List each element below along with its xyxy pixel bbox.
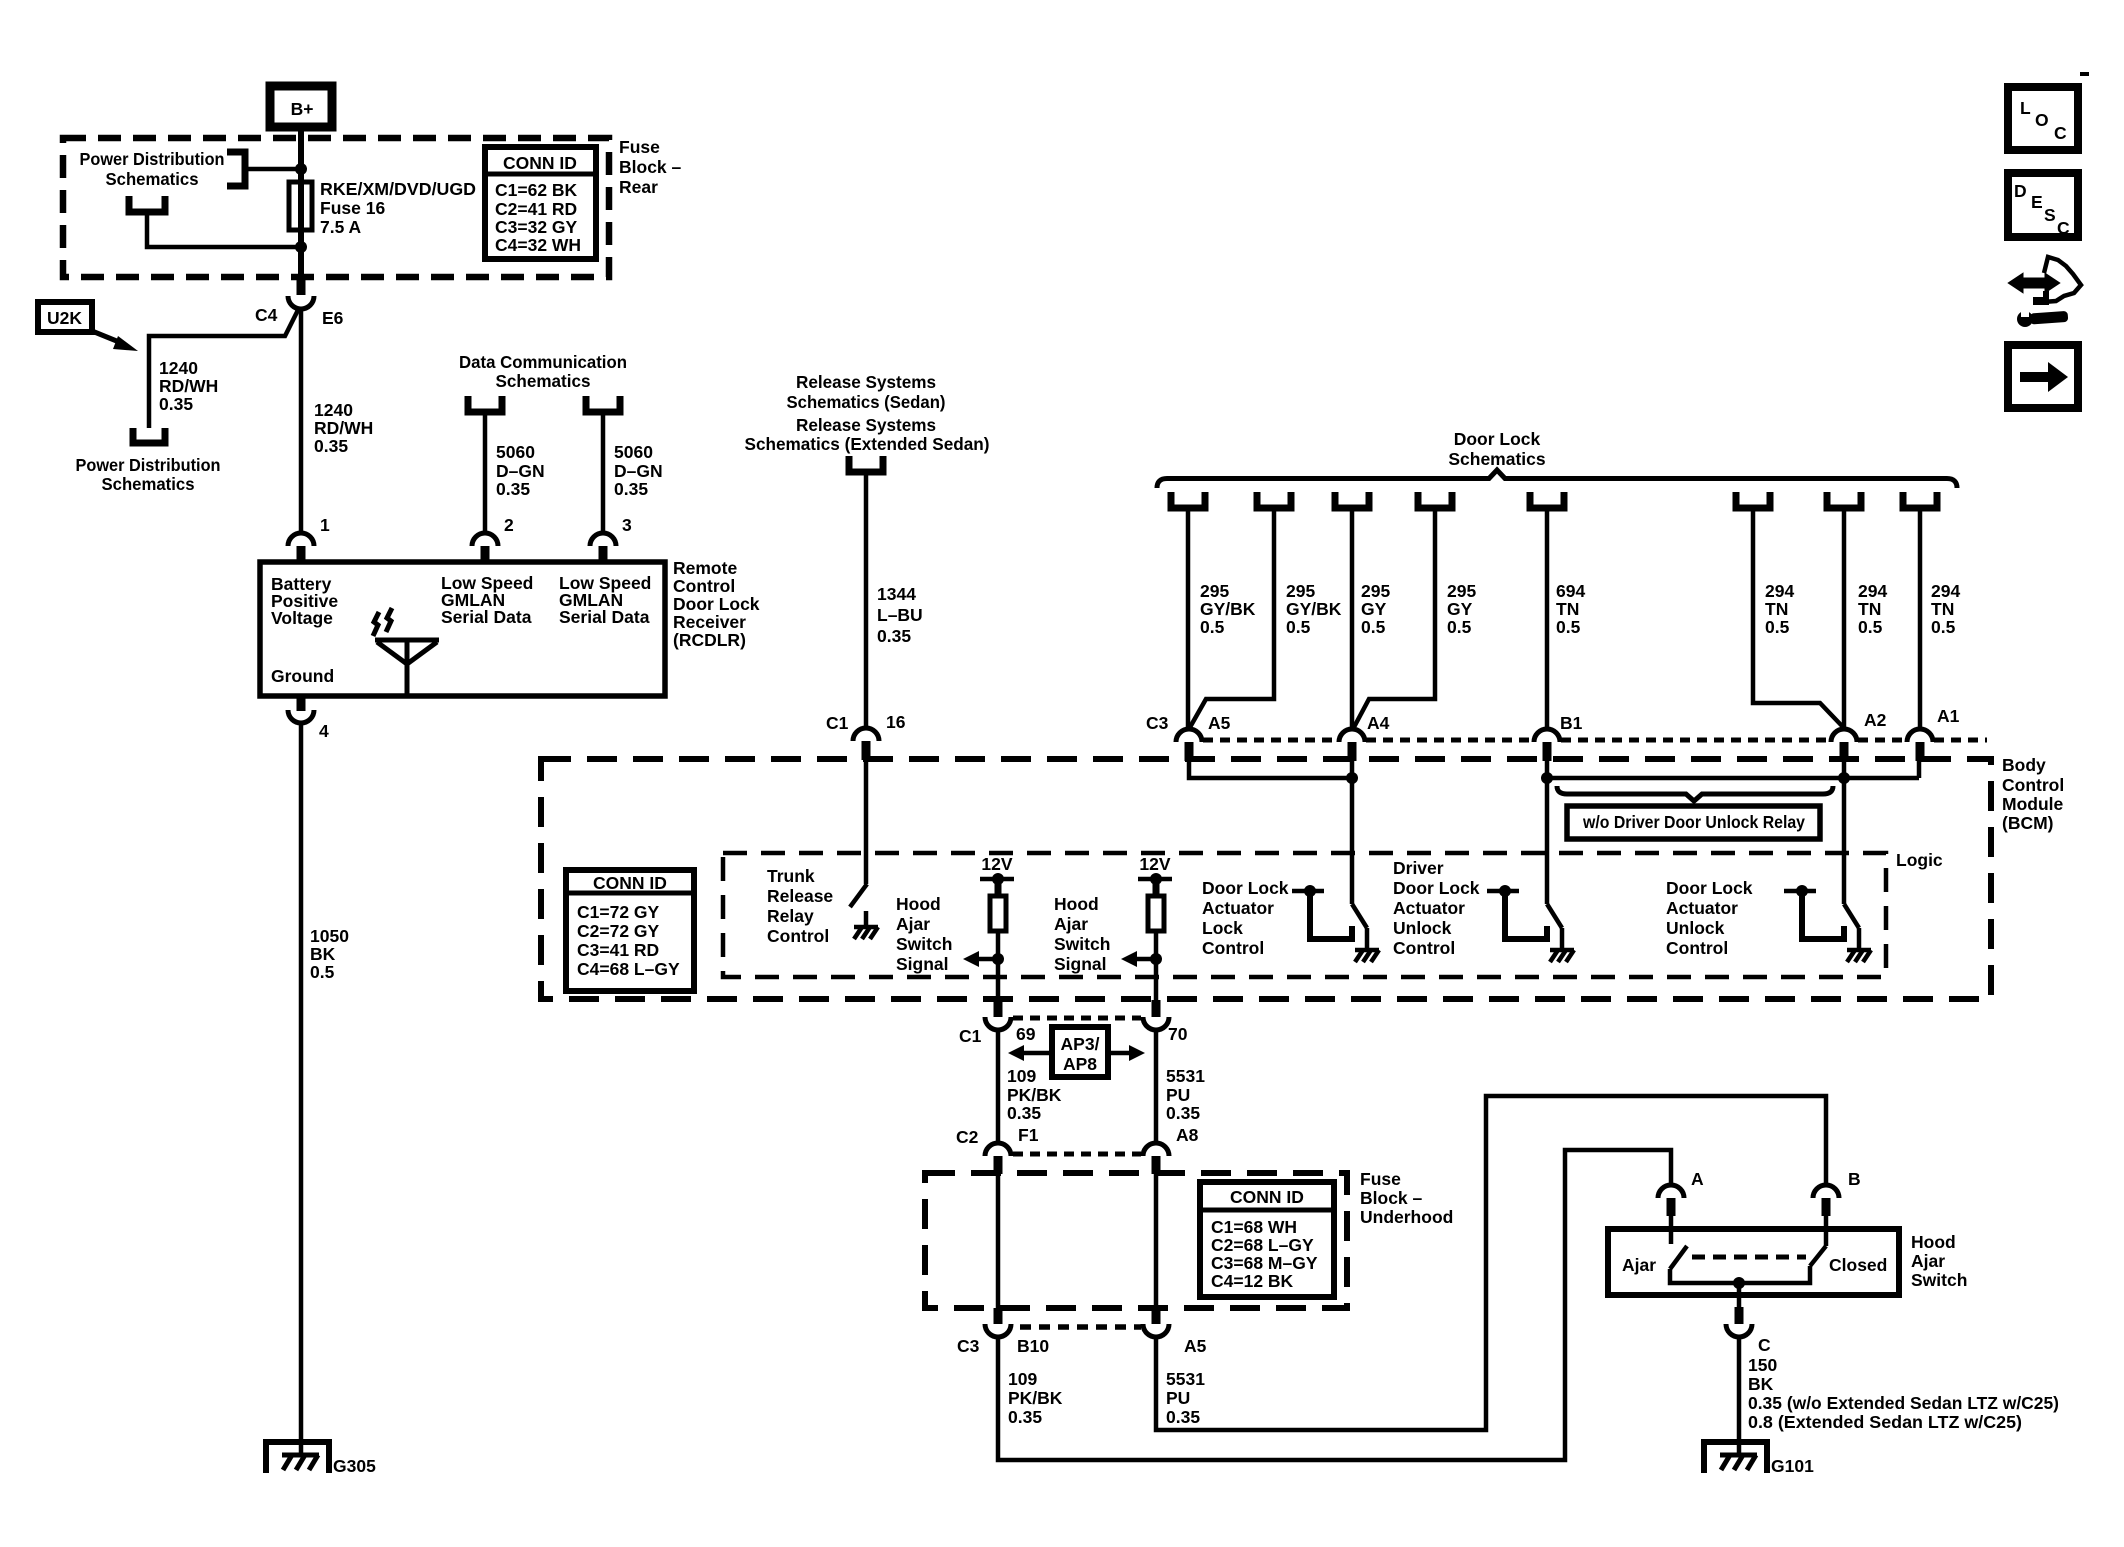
svg-text:109: 109: [1008, 1369, 1037, 1389]
svg-text:Driver: Driver: [1393, 858, 1444, 878]
svg-text:C4=12 BK: C4=12 BK: [1211, 1271, 1294, 1291]
svg-text:Ajar: Ajar: [1911, 1251, 1945, 1271]
svg-text:Unlock: Unlock: [1666, 918, 1725, 938]
svg-text:Switch: Switch: [1911, 1270, 1967, 1290]
svg-text:C1: C1: [959, 1026, 982, 1046]
svg-text:0.5: 0.5: [1858, 617, 1883, 637]
svg-text:RD/WH: RD/WH: [314, 418, 373, 438]
hood ajar switch common path: [1670, 1266, 1810, 1283]
label trunk release relay control: [767, 866, 833, 946]
label 295 GY/BK 0.5 (w2): [1286, 581, 1342, 637]
svg-text:0.5: 0.5: [1447, 617, 1472, 637]
svg-text:Data Communication: Data Communication: [459, 352, 627, 372]
connector A4 arc: [1339, 729, 1365, 742]
power distribution schematics bracket 2: [129, 196, 165, 212]
connector C3/B10 stub: [994, 1308, 1003, 1324]
trunk release relay switch blade: [850, 884, 867, 907]
svg-text:0.35: 0.35: [314, 436, 348, 456]
connector B arc: [1813, 1185, 1839, 1198]
svg-text:Module: Module: [2002, 794, 2064, 814]
connector C1/69 arc: [985, 1017, 1011, 1030]
wire to power distribution bracket: [245, 167, 301, 172]
svg-text:3: 3: [622, 515, 632, 535]
connector C2/F1 arc: [985, 1143, 1011, 1156]
svg-text:C1: C1: [826, 713, 849, 733]
label low speed gmlan serial data (pin3): [559, 573, 651, 627]
door lock bracket w2: [1257, 492, 1291, 508]
svg-text:Release: Release: [767, 886, 833, 906]
label door lock actuator lock control: [1202, 878, 1289, 958]
svg-text:D–GN: D–GN: [614, 461, 663, 481]
pin 1 connector stub: [297, 546, 306, 563]
svg-text:0.8 (Extended Sedan LTZ w/C25): 0.8 (Extended Sedan LTZ w/C25): [1748, 1412, 2022, 1432]
connector C stub: [1735, 1307, 1744, 1324]
pin 4 connector stub: [297, 696, 306, 711]
svg-text:7.5 A: 7.5 A: [320, 217, 362, 237]
wire 109 through fuse block: [996, 1174, 1001, 1308]
svg-text:Voltage: Voltage: [271, 608, 333, 628]
w/o driver door unlock relay label box: [1567, 806, 1820, 839]
signal arrow (right): [1121, 951, 1156, 967]
svg-text:1: 1: [320, 515, 330, 535]
wire 5531 PU (70 to A8): [1154, 1030, 1159, 1142]
svg-text:Fuse 16: Fuse 16: [320, 198, 385, 218]
label 1344 L-BU 0.35: [877, 584, 923, 646]
svg-text:CONN ID: CONN ID: [593, 873, 667, 893]
svg-text:0.35: 0.35: [159, 394, 193, 414]
svg-text:0.5: 0.5: [1286, 617, 1311, 637]
label release systems schematics: [745, 372, 990, 454]
svg-text:(BCM): (BCM): [2002, 813, 2054, 833]
svg-text:Control: Control: [1666, 938, 1728, 958]
svg-text:69: 69: [1016, 1024, 1036, 1044]
data communication bracket pin2: [468, 396, 502, 412]
wire main 1240 RD/WH down to RCDLR pin 1: [299, 308, 304, 533]
brace w/o driver door unlock relay: [1557, 786, 1833, 801]
brace door lock schematics: [1157, 470, 1957, 488]
svg-text:B1: B1: [1560, 713, 1583, 733]
power distribution schematics reference bracket (right-open): [227, 152, 245, 186]
svg-text:C2=41 RD: C2=41 RD: [495, 199, 577, 219]
svg-text:1240: 1240: [314, 400, 353, 420]
svg-text:0.35: 0.35: [1166, 1103, 1200, 1123]
svg-text:A5: A5: [1208, 713, 1231, 733]
svg-text:Ajar: Ajar: [896, 914, 930, 934]
door lock bracket w3: [1335, 492, 1369, 508]
svg-text:294: 294: [1931, 581, 1960, 601]
dotted row C2 F1-A8: [1013, 1152, 1141, 1157]
connector C1/69 stub: [994, 1000, 1003, 1017]
svg-text:12V: 12V: [1139, 854, 1170, 874]
svg-text:1240: 1240: [159, 358, 198, 378]
connector C2/F1 stub: [994, 1156, 1003, 1174]
svg-text:Block –: Block –: [1360, 1188, 1423, 1208]
svg-text:w/o Driver Door Unlock Relay: w/o Driver Door Unlock Relay: [1582, 812, 1805, 832]
svg-text:RKE/XM/DVD/UGD: RKE/XM/DVD/UGD: [320, 179, 476, 199]
door lock bracket w1: [1171, 492, 1205, 508]
wire w5 694 TN to B1: [1545, 508, 1550, 730]
svg-text:Schematics: Schematics: [102, 474, 195, 494]
label 150 BK 0.35/0.8: [1748, 1355, 2059, 1432]
connector A arc: [1658, 1185, 1684, 1198]
svg-text:(RCDLR): (RCDLR): [673, 630, 746, 650]
label driver door lock actuator unlock control: [1393, 858, 1480, 958]
svg-text:CONN ID: CONN ID: [1230, 1187, 1304, 1207]
ground rake (unlock): [1847, 950, 1871, 962]
svg-text:0.35: 0.35: [1007, 1103, 1041, 1123]
svg-text:5531: 5531: [1166, 1066, 1205, 1086]
node junction dot 1: [295, 163, 307, 175]
svg-text:BK: BK: [1748, 1374, 1774, 1394]
svg-text:5531: 5531: [1166, 1369, 1205, 1389]
connector C4/E6 arc: [288, 296, 314, 309]
hood ajar switch pin A lead: [1669, 1216, 1674, 1244]
svg-text:0.5: 0.5: [1931, 617, 1956, 637]
svg-text:C2: C2: [956, 1127, 979, 1147]
svg-text:109: 109: [1007, 1066, 1036, 1086]
resistor (right hood ajar pull-up): [1148, 896, 1164, 931]
svg-text:GY: GY: [1361, 599, 1387, 619]
svg-text:C: C: [1758, 1335, 1771, 1355]
svg-text:Fuse: Fuse: [619, 137, 660, 157]
label 294 TN 0.5 (w7): [1858, 581, 1887, 637]
door lock bracket w6: [1736, 492, 1770, 508]
svg-text:Release Systems: Release Systems: [796, 372, 936, 392]
label 5060 D-GN 0.35 (pin3): [614, 442, 663, 499]
svg-text:Switch: Switch: [1054, 934, 1110, 954]
label low speed gmlan serial data (pin2): [441, 573, 533, 627]
svg-text:Release Systems: Release Systems: [796, 415, 936, 435]
power distribution schematics bracket 3 (lower left): [133, 428, 165, 443]
svg-text:Schematics: Schematics: [496, 371, 591, 391]
wire w3 295 GY to A4: [1350, 508, 1355, 730]
connector 70 stub: [1152, 1000, 1161, 1017]
svg-text:A: A: [1691, 1169, 1704, 1189]
node junction dot 2: [295, 241, 307, 253]
svg-text:D–GN: D–GN: [496, 461, 545, 481]
svg-text:Door Lock: Door Lock: [1202, 878, 1289, 898]
svg-text:Control: Control: [1202, 938, 1264, 958]
antenna symbol: [373, 608, 439, 696]
svg-text:C1=68 WH: C1=68 WH: [1211, 1217, 1297, 1237]
svg-text:295: 295: [1447, 581, 1476, 601]
wire 1344 L-BU trunk release: [864, 472, 869, 730]
wire 1050 BK to G305: [299, 722, 304, 1442]
dotted connector row C3: [1203, 738, 1987, 743]
svg-text:0.5: 0.5: [1200, 617, 1225, 637]
svg-text:C3=68 M–GY: C3=68 M–GY: [1211, 1253, 1318, 1273]
svg-text:Control: Control: [767, 926, 829, 946]
wire w8 294 TN to A1: [1918, 508, 1923, 730]
svg-text:Switch: Switch: [896, 934, 952, 954]
ground G101 symbol: [1704, 1442, 1767, 1473]
wire w7 294 TN to A2: [1842, 508, 1847, 730]
svg-text:Ajar: Ajar: [1054, 914, 1088, 934]
label 5531 PU 0.35 (upper): [1166, 1066, 1205, 1123]
svg-text:Control: Control: [673, 576, 735, 596]
wire w4 295 GY bend to A4: [1353, 508, 1435, 729]
connector 70 arc: [1143, 1017, 1169, 1030]
svg-text:Ajar: Ajar: [1622, 1255, 1656, 1275]
pin 3 connector arc: [590, 533, 616, 546]
wire 5531 PU routing to hood ajar switch pin B: [1156, 1096, 1826, 1430]
fuse RKE/XM/DVD/UGD Fuse 16 7.5A: [289, 179, 476, 237]
signal arrow (left): [963, 951, 998, 967]
label 5531 PU 0.35 (lower): [1166, 1369, 1205, 1427]
svg-text:CONN ID: CONN ID: [503, 153, 577, 173]
icon LOC box: [2008, 87, 2078, 150]
svg-text:Serial Data: Serial Data: [559, 607, 650, 627]
wire branch to U2K circuit (1240 RD/WH): [149, 310, 298, 428]
svg-text:295: 295: [1361, 581, 1390, 601]
wire 5060 D-GN to pin 2: [483, 412, 488, 533]
connector B stub: [1822, 1198, 1831, 1216]
svg-text:C3: C3: [957, 1336, 980, 1356]
svg-text:L: L: [2020, 98, 2031, 118]
hood ajar switch blade B (closed): [1810, 1246, 1826, 1266]
label 295 GY 0.5 (w3): [1361, 581, 1390, 637]
svg-text:U2K: U2K: [47, 308, 82, 328]
svg-text:0.35: 0.35: [496, 479, 530, 499]
12V supply node (left): [980, 854, 1014, 896]
svg-text:C3: C3: [1146, 713, 1169, 733]
label 295 GY 0.5 (w4): [1447, 581, 1476, 637]
svg-text:295: 295: [1200, 581, 1229, 601]
svg-text:0.5: 0.5: [1556, 617, 1581, 637]
svg-text:AP8: AP8: [1063, 1054, 1097, 1074]
svg-text:TN: TN: [1556, 599, 1579, 619]
svg-text:G101: G101: [1771, 1456, 1814, 1476]
logic dashed box: [723, 853, 1886, 977]
trunk release switch lower contact stub: [864, 911, 869, 927]
svg-text:0.35: 0.35: [1008, 1407, 1042, 1427]
label door lock schematics: [1448, 429, 1546, 469]
svg-text:Signal: Signal: [896, 954, 949, 974]
svg-text:F1: F1: [1018, 1125, 1039, 1145]
label door lock actuator unlock control: [1666, 878, 1753, 958]
node junction dot at A4: [1346, 772, 1358, 784]
label 295 GY/BK 0.5 (w1): [1200, 581, 1256, 637]
CONN ID table fuse block underhood: [1200, 1182, 1334, 1297]
svg-text:O: O: [2035, 110, 2049, 130]
svg-text:Underhood: Underhood: [1360, 1207, 1453, 1227]
svg-text:Relay: Relay: [767, 906, 814, 926]
svg-text:294: 294: [1765, 581, 1794, 601]
svg-text:Schematics (Sedan): Schematics (Sedan): [787, 392, 946, 412]
pin 2 connector arc: [472, 533, 498, 546]
svg-text:A1: A1: [1937, 706, 1960, 726]
svg-text:Actuator: Actuator: [1666, 898, 1738, 918]
wire common down: [1737, 1283, 1742, 1307]
label Data Communication Schematics: [459, 352, 627, 391]
connector C arc: [1726, 1324, 1752, 1337]
svg-text:0.5: 0.5: [310, 962, 335, 982]
wire bus B1 to A1: [1547, 776, 1919, 781]
wire w1 295 GY/BK to A5: [1186, 508, 1191, 730]
svg-text:C: C: [2057, 218, 2070, 238]
svg-text:Trunk: Trunk: [767, 866, 815, 886]
label 694 TN 0.5 (w5): [1556, 581, 1585, 637]
pin 3 connector stub: [599, 546, 608, 563]
door lock bracket w4: [1418, 492, 1452, 508]
svg-text:GY: GY: [1447, 599, 1473, 619]
wire A1 stub into bus: [1917, 760, 1922, 778]
label Fuse Block - Rear: [619, 137, 682, 197]
wire junction2 to lower bracket: [147, 212, 301, 247]
label 1240 RD/WH 0.35 (main): [314, 400, 373, 456]
svg-text:C4=32 WH: C4=32 WH: [495, 235, 581, 255]
svg-text:150: 150: [1748, 1355, 1777, 1375]
svg-text:694: 694: [1556, 581, 1585, 601]
label 294 TN 0.5 (w6): [1765, 581, 1794, 637]
svg-text:Actuator: Actuator: [1393, 898, 1465, 918]
wire 109 PK/BK (69 to F1): [996, 1030, 1001, 1142]
svg-text:Rear: Rear: [619, 177, 658, 197]
label hood ajar switch: [1911, 1232, 1967, 1290]
svg-text:Block –: Block –: [619, 157, 682, 177]
svg-text:G305: G305: [333, 1456, 376, 1476]
label hood ajar switch signal (right): [1054, 894, 1110, 974]
svg-text:Power Distribution: Power Distribution: [76, 455, 221, 475]
label 5060 D-GN 0.35 (pin2): [496, 442, 545, 499]
svg-text:0.5: 0.5: [1361, 617, 1386, 637]
svg-text:Ground: Ground: [271, 666, 334, 686]
svg-text:C: C: [2054, 123, 2067, 143]
svg-text:5060: 5060: [496, 442, 535, 462]
svg-text:BK: BK: [310, 944, 336, 964]
svg-text:16: 16: [886, 712, 906, 732]
svg-text:Closed: Closed: [1829, 1255, 1887, 1275]
dashed mechanical link: [1692, 1255, 1806, 1260]
label 1240 RD/WH 0.35 (branch): [159, 358, 218, 414]
svg-text:E6: E6: [322, 308, 344, 328]
connector A1 arc: [1907, 729, 1933, 742]
dotted row C3 B10-A5: [1020, 1324, 1141, 1330]
wire w6 294 TN bend to A2: [1753, 508, 1843, 727]
svg-text:L–BU: L–BU: [877, 605, 923, 625]
svg-text:TN: TN: [1765, 599, 1788, 619]
svg-text:A4: A4: [1367, 713, 1390, 733]
svg-text:Remote: Remote: [673, 558, 737, 578]
svg-text:1344: 1344: [877, 584, 916, 604]
connector A5 stub: [1185, 742, 1194, 761]
svg-text:0.35: 0.35: [1166, 1407, 1200, 1427]
label 294 TN 0.5 (w8): [1931, 581, 1960, 637]
svg-text:C2=68 L–GY: C2=68 L–GY: [1211, 1235, 1314, 1255]
svg-text:Schematics (Extended Sedan): Schematics (Extended Sedan): [745, 434, 990, 454]
wire B1 down to driver unlock switch: [1545, 760, 1550, 904]
wire right hood ajar signal down: [1154, 931, 1159, 1017]
pin 4 connector arc: [288, 710, 314, 723]
node junction dot at B1: [1541, 772, 1553, 784]
svg-text:AP3/: AP3/: [1061, 1034, 1100, 1054]
svg-text:B+: B+: [291, 99, 314, 119]
connector A5 arc: [1176, 729, 1202, 742]
connector A5 out arc: [1143, 1324, 1169, 1337]
label fuse block underhood: [1360, 1169, 1453, 1227]
svg-text:Unlock: Unlock: [1393, 918, 1452, 938]
lock control switch assembly: [1292, 885, 1367, 950]
connector A2 stub: [1840, 742, 1849, 761]
svg-text:GY/BK: GY/BK: [1286, 599, 1342, 619]
battery positive B+ terminal: [270, 86, 332, 127]
CONN ID table BCM: [566, 870, 694, 991]
connector A1 stub: [1916, 742, 1925, 761]
fuse block underhood dashed box: [925, 1173, 1347, 1308]
U2K arrow: [92, 331, 138, 351]
dotted row C1 69-70: [1013, 1016, 1141, 1021]
node junction dot common: [1733, 1277, 1745, 1289]
svg-text:B10: B10: [1017, 1336, 1049, 1356]
connector C1 pin16 stub: [862, 741, 871, 760]
data communication bracket pin3: [586, 396, 620, 412]
node junction dot (left signal): [992, 953, 1004, 965]
wire A4 down to lock switch: [1350, 760, 1355, 904]
wire bus A5 to A4: [1189, 760, 1352, 778]
connector B1 stub: [1543, 742, 1552, 761]
svg-text:4: 4: [319, 721, 329, 741]
driver unlock switch assembly: [1487, 885, 1562, 950]
svg-text:0.5: 0.5: [1765, 617, 1790, 637]
ground rake (trunk release): [854, 927, 878, 939]
release systems bracket: [849, 456, 883, 472]
svg-text:Logic: Logic: [1896, 850, 1943, 870]
resistor (left hood ajar pull-up): [990, 896, 1006, 931]
svg-text:Door Lock: Door Lock: [1666, 878, 1753, 898]
wire w2 295 GY/BK bend to A5: [1189, 508, 1274, 729]
svg-text:Control: Control: [2002, 775, 2064, 795]
wire left hood ajar signal down: [996, 931, 1001, 1017]
svg-text:C4=68 L–GY: C4=68 L–GY: [577, 959, 680, 979]
AP3/AP8 splice box with arrows: [1008, 1027, 1145, 1077]
svg-text:Door Lock: Door Lock: [1454, 429, 1541, 449]
svg-text:PK/BK: PK/BK: [1007, 1085, 1062, 1105]
wire 150 BK to G101: [1737, 1338, 1742, 1442]
svg-text:A2: A2: [1864, 710, 1887, 730]
fuse block rear dashed box: [63, 138, 609, 277]
label battery positive voltage: [271, 574, 338, 628]
svg-text:1050: 1050: [310, 926, 349, 946]
page mark: [2080, 72, 2089, 76]
svg-text:C2=72 GY: C2=72 GY: [577, 921, 660, 941]
svg-text:12V: 12V: [981, 854, 1012, 874]
wire A2 down to unlock switch: [1842, 760, 1847, 904]
svg-text:Serial Data: Serial Data: [441, 607, 532, 627]
hood ajar switch box: [1608, 1229, 1899, 1295]
icon DESC box: [2008, 173, 2078, 238]
svg-text:D: D: [2014, 181, 2027, 201]
svg-text:GY/BK: GY/BK: [1200, 599, 1256, 619]
svg-text:0.35: 0.35: [877, 626, 911, 646]
svg-text:Schematics: Schematics: [106, 169, 199, 189]
svg-text:B: B: [1848, 1169, 1861, 1189]
node junction dot (right signal): [1150, 953, 1162, 965]
connector A8 arc: [1143, 1143, 1169, 1156]
icon connector repair (arrow + wrench): [2010, 257, 2081, 327]
connector B1 arc: [1534, 729, 1560, 742]
connector C4/E6 stub: [297, 277, 306, 295]
svg-text:C1=62 BK: C1=62 BK: [495, 180, 578, 200]
wire trunk release into BCM: [864, 760, 869, 884]
svg-text:S: S: [2044, 205, 2056, 225]
svg-text:A5: A5: [1184, 1336, 1207, 1356]
svg-text:294: 294: [1858, 581, 1887, 601]
svg-text:Door Lock: Door Lock: [1393, 878, 1480, 898]
svg-text:TN: TN: [1858, 599, 1881, 619]
svg-text:0.35 (w/o Extended Sedan LTZ w: 0.35 (w/o Extended Sedan LTZ w/C25): [1748, 1393, 2059, 1413]
svg-text:Signal: Signal: [1054, 954, 1107, 974]
svg-text:PK/BK: PK/BK: [1008, 1388, 1063, 1408]
